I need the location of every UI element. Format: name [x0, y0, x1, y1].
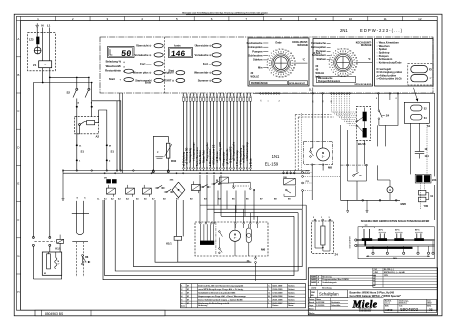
svg-text:09/02: 09/02 — [427, 303, 431, 305]
svg-text:4: 4 — [329, 60, 330, 63]
seven segment display 1 — [108, 47, 135, 59]
svg-text:6: 6 — [211, 17, 213, 21]
svg-text:Bearb.: Bearb. — [309, 302, 315, 304]
svg-text:Name: Name — [288, 305, 293, 307]
svg-text:Fort —: Fort — — [203, 62, 212, 66]
svg-text:☞: ☞ — [430, 77, 432, 80]
svg-text:Lfd-Nr: Lfd-Nr — [311, 288, 316, 290]
svg-text:BAM2: BAM2 — [311, 278, 316, 281]
M8 pin stub from panel — [312, 88, 314, 94]
svg-text:Stärken: Stärken — [316, 57, 326, 61]
Z4 resistor — [321, 221, 325, 251]
junction dots on bus — [62, 170, 222, 174]
svg-text:1: 1 — [333, 52, 334, 54]
svg-text:Bl.Nr.: Bl.Nr. — [427, 305, 432, 307]
svg-text:2: 2 — [72, 17, 74, 21]
svg-text:Z1: Z1 — [33, 63, 37, 67]
svg-text:Zust: Zust — [181, 305, 185, 308]
wire N output — [42, 68, 44, 83]
svg-text:Schmi.: Schmi. — [288, 289, 295, 291]
svg-text:50: 50 — [354, 70, 356, 72]
svg-text:60°C: 60°C — [395, 230, 400, 232]
svg-text:05: 05 — [429, 308, 433, 312]
pcb wiper terminals — [372, 241, 434, 255]
svg-text:19: 19 — [244, 93, 246, 95]
series description — [350, 290, 402, 298]
svg-text:Norm: Norm — [309, 308, 314, 310]
contact below 1N5 — [284, 186, 295, 197]
svg-text:50: 50 — [292, 70, 294, 72]
M6 bar feed wires — [201, 224, 214, 240]
motor M1 resistor — [47, 252, 51, 269]
svg-text:10: 10 — [344, 48, 346, 50]
relay A2 dashed box — [75, 117, 99, 134]
node L1 junction — [49, 77, 51, 79]
svg-text:1N1: 1N1 — [272, 154, 280, 159]
connector pair left wire — [32, 236, 34, 279]
wire PE drop — [36, 28, 38, 37]
svg-text:11: 11 — [384, 17, 387, 21]
svg-text:Z4: Z4 — [335, 253, 339, 257]
svg-text:Schmi.: Schmi. — [288, 296, 295, 298]
pcb top contact labels — [379, 229, 423, 234]
Z4 terminals — [313, 217, 331, 221]
svg-text:21: 21 — [250, 93, 252, 95]
protective earth terminal — [34, 44, 41, 54]
svg-text:30: 30 — [356, 64, 358, 66]
top coordinate ticks and numbers — [21, 16, 438, 21]
svg-text:M: M — [44, 273, 46, 275]
wire left vertical N down — [32, 83, 34, 238]
svg-text:⊙: ⊙ — [123, 66, 125, 69]
seven segment display 2 — [169, 45, 193, 59]
dial 1 bottom boxes — [250, 81, 308, 85]
svg-text:n Schleuderstop: n Schleuderstop — [246, 142, 249, 161]
relay 1N5 — [283, 177, 295, 185]
svg-text:EL-159: EL-159 — [265, 162, 279, 167]
svg-text:3: 3 — [107, 17, 109, 21]
switch unit S1 box — [404, 88, 430, 128]
svg-text:11: 11 — [340, 48, 342, 50]
svg-text:12: 12 — [418, 17, 422, 21]
svg-text:6: 6 — [329, 67, 330, 69]
svg-text:40: 40 — [355, 66, 357, 69]
pcb left terminals — [355, 239, 357, 247]
svg-text:M8: M8 — [328, 166, 332, 170]
svg-text:3N: 3N — [104, 177, 107, 179]
dial 2 left labels — [311, 41, 330, 61]
svg-text:1Z3: 1Z3 — [29, 37, 34, 41]
svg-text:12: 12 — [337, 49, 339, 51]
svg-text:70: 70 — [287, 74, 289, 76]
svg-text:2: 2 — [313, 217, 314, 219]
relay K1 coil mid — [166, 200, 251, 262]
svg-text:M: M — [109, 145, 111, 147]
svg-text:7: 7 — [331, 70, 332, 72]
svg-text:Werks.: Werks. — [309, 313, 315, 315]
svg-text:4.02.1998: 4.02.1998 — [316, 301, 324, 304]
svg-text:04.11.1999: 04.11.1999 — [272, 284, 283, 287]
revision table texts — [181, 284, 295, 307]
svg-text:2Y1: 2Y1 — [306, 170, 309, 172]
contact row small 1 — [155, 185, 165, 188]
svg-text:60 Soll...: 60 Soll... — [313, 53, 323, 55]
svg-text:70: 70 — [349, 74, 351, 76]
svg-text:S2: S2 — [67, 91, 71, 95]
svg-text:12: 12 — [220, 93, 222, 95]
svg-text:Pumpen/Schleudern: Pumpen/Schleudern — [318, 81, 341, 83]
svg-text:M.Nr.: M.Nr. — [385, 305, 389, 307]
option list table left — [308, 275, 437, 290]
node collect — [356, 120, 358, 127]
filter block Z1 — [33, 61, 52, 68]
svg-text:5: 5 — [267, 64, 268, 66]
optional wiring dashed verticals — [295, 115, 334, 172]
svg-text:Extraspülen: Extraspülen — [248, 45, 263, 49]
svg-text:2: 2 — [269, 55, 270, 57]
svg-text:BAM1: BAM1 — [311, 276, 316, 279]
NTC thermistor 2 — [363, 128, 367, 138]
svg-text:30: 30 — [275, 76, 277, 78]
svg-text:2: 2 — [396, 98, 397, 100]
svg-text:L1: L1 — [47, 24, 51, 28]
svg-text:Schmi.: Schmi. — [288, 285, 295, 287]
resistor R30 body — [165, 143, 177, 163]
svg-text:40: 40 — [293, 66, 295, 69]
svg-text:16: 16 — [292, 55, 294, 57]
display section divider — [164, 37, 166, 93]
interference cap 223 — [415, 174, 437, 183]
svg-text:Stärken: Stärken — [253, 58, 263, 62]
svg-text:Baureihe: W500 Nova S-Plus, Hy: Baureihe: W500 Nova S-Plus, Hy148 — [350, 290, 395, 294]
svg-text:|◷: |◷ — [429, 68, 432, 71]
svg-text:R30: R30 — [171, 159, 177, 163]
svg-text:6: 6 — [200, 94, 202, 95]
pcb top bracket 17deg — [363, 225, 375, 228]
svg-text:29.01.1998: 29.01.1998 — [272, 299, 283, 301]
relay K5 — [216, 177, 228, 183]
multi contact lever — [228, 182, 255, 191]
revision table rows — [181, 287, 306, 303]
display2 right labels and buttons — [194, 44, 221, 83]
svg-text:Feinwäsche: Feinwäsche — [311, 41, 326, 45]
svg-text:5904803: 5904803 — [400, 307, 418, 312]
wire S1 to 223 — [410, 123, 412, 174]
svg-text:2: 2 — [376, 98, 377, 100]
svg-text:9: 9 — [335, 51, 336, 53]
svg-text:N: N — [41, 24, 43, 28]
node N junction — [42, 82, 44, 84]
svg-text:13: 13 — [285, 50, 287, 52]
plug S1 left pins — [76, 144, 85, 162]
svg-text:20: 20 — [247, 93, 249, 95]
svg-text:Gepr.: Gepr. — [309, 305, 314, 307]
motor M1 box — [42, 252, 61, 275]
svg-text:S1: S1 — [427, 124, 431, 128]
svg-text:M: M — [234, 234, 236, 237]
connector column left — [302, 170, 312, 209]
svg-text:t1503: t1503 — [385, 308, 393, 312]
mechanical link dashed — [34, 240, 55, 242]
dashed wire S1 right to 223 — [426, 123, 428, 174]
svg-text:2N1: 2N1 — [340, 28, 348, 33]
svg-text:50: 50 — [121, 49, 132, 59]
svg-text:F: F — [17, 218, 19, 222]
wire bus right under panel — [253, 92, 435, 94]
svg-text:Restzeit/min: Restzeit/min — [105, 69, 121, 73]
wires from B1/15 area down — [341, 125, 365, 200]
dashed vertical bus — [300, 113, 302, 172]
svg-text:85°C: 85°C — [415, 230, 420, 232]
svg-text:95: 95 — [285, 76, 287, 78]
svg-text:3: 3 — [329, 217, 330, 219]
svg-text:2N1: 2N1 — [375, 272, 378, 274]
svg-text:M6: M6 — [261, 248, 265, 252]
bus left end drop — [62, 171, 64, 199]
svg-text:Duckstein: Duckstein — [331, 301, 340, 304]
svg-text:0: 0 — [273, 75, 274, 77]
contact row small 3 — [211, 181, 221, 184]
wire duct vertical 3 — [133, 200, 302, 267]
wire L1 output — [49, 68, 51, 78]
spare pins on bus — [260, 93, 281, 102]
dial 1 tick ring — [267, 49, 296, 78]
M6 choke black bar — [200, 241, 214, 245]
svg-text:B: B — [17, 73, 19, 77]
svg-text:Beladung %: Beladung % — [106, 60, 122, 64]
connector 2A — [247, 256, 257, 281]
heater relay 114 — [415, 123, 429, 158]
svg-text:Wasser plus ⊙: Wasser plus ⊙ — [133, 71, 152, 75]
svg-text:Schaltplan: Schaltplan — [319, 292, 339, 297]
svg-text:16: 16 — [354, 55, 356, 57]
svg-text:2x: 2x — [260, 100, 262, 102]
M6 terminals — [200, 222, 259, 228]
svg-text:Vorwäsche ⊙: Vorwäsche ⊙ — [195, 53, 213, 57]
NTC thermistor 1 — [363, 112, 367, 122]
display2 left labels — [163, 69, 184, 82]
display1 buttons column inner — [124, 69, 134, 73]
bottom reference number box — [35, 310, 165, 316]
svg-text:18: 18 — [355, 58, 357, 60]
svg-text:Start: Start — [109, 77, 115, 81]
wires right side verticals — [378, 93, 435, 220]
svg-text:9: 9 — [273, 51, 274, 53]
wire S2 route right inner — [116, 101, 118, 171]
svg-text:223: 223 — [432, 178, 437, 182]
svg-text:S1: S1 — [81, 149, 85, 153]
svg-text:neue WPS-Einspül.sequ. Progr.-: neue WPS-Einspül.sequ. Progr.-Abl. + Zt.… — [198, 288, 243, 291]
svg-text:8: 8 — [333, 72, 334, 74]
net label PE N L1 — [35, 23, 39, 27]
M6 tacho winding — [229, 224, 240, 256]
valve Y80 — [419, 190, 434, 208]
pcb rail 1 — [357, 239, 435, 240]
connector pair right wire — [49, 236, 51, 252]
svg-text:S4: S4 — [386, 114, 390, 118]
svg-text:EL-159-(...): EL-159-(...) — [384, 269, 394, 271]
wire S1 left down — [76, 161, 78, 170]
svg-text:12: 12 — [275, 50, 277, 52]
svg-text:10: 10 — [282, 49, 284, 51]
svg-text:ers. d.: ers. d. — [385, 303, 391, 305]
svg-text:14: 14 — [227, 93, 229, 95]
svg-text:Vorwäsche ⊙: Vorwäsche ⊙ — [135, 53, 153, 57]
svg-text:Schmi.: Schmi. — [288, 292, 295, 294]
svg-text:M26: M26 — [401, 202, 407, 206]
svg-text:4: 4 — [267, 60, 268, 63]
wire to S1 plug left — [76, 106, 78, 144]
svg-text:40: 40 — [278, 76, 280, 79]
cross link wires upper — [200, 175, 306, 222]
svg-text:~: ~ — [44, 63, 46, 67]
switch S2 contact 2 — [85, 77, 90, 97]
svg-text:°C: °C — [302, 59, 305, 62]
svg-text:K1/1: K1/1 — [166, 242, 172, 246]
R30 symbols — [156, 151, 164, 158]
svg-text:Gen.2000 Galaxie WPS1/ +"W500: Gen.2000 Galaxie WPS1/ +"W500 Special" — [350, 294, 402, 298]
wire duct vertical 4 — [155, 200, 251, 262]
svg-text:EDPW-223-(...): EDPW-223-(...) — [360, 28, 403, 33]
wire drops to M6 group2 — [218, 191, 254, 220]
wire to relay A2 — [91, 106, 93, 116]
svg-text:17: 17 — [237, 93, 239, 95]
svg-text:16: 16 — [233, 93, 235, 95]
bus wire upper — [63, 170, 310, 172]
svg-text:11: 11 — [217, 93, 219, 95]
svg-text:60: 60 — [290, 73, 292, 75]
svg-text:Min: Min — [258, 65, 263, 69]
NTC sensor B1/15 dashed box — [356, 106, 370, 140]
wire L1 drop — [48, 28, 50, 61]
terminal labels row — [97, 198, 291, 201]
svg-text:13: 13 — [223, 93, 225, 95]
svg-text:8: 8 — [280, 17, 282, 21]
connector row bottom of ribbon — [183, 167, 252, 171]
connector pair below S2 — [76, 83, 93, 108]
svg-text:Name: Name — [316, 299, 321, 301]
svg-text:30: 30 — [294, 64, 296, 66]
svg-text:40°C: 40°C — [379, 229, 384, 232]
svg-text:WÄSCHE: WÄSCHE — [361, 44, 372, 47]
svg-text:p Ende: p Ende — [249, 158, 252, 167]
B1/15 terminals — [358, 108, 365, 132]
pcb contact stems and bars — [362, 229, 424, 246]
title block frame — [308, 268, 437, 315]
svg-text:10: 10 — [213, 93, 215, 95]
svg-text:Anpassungen an Progr.-Abl. + D: Anpassungen an Progr.-Abl. + Darst. Wass… — [198, 295, 246, 298]
panel status list texts — [376, 42, 403, 81]
node R30 terminals — [152, 171, 154, 173]
connector pins M8 feed — [312, 93, 324, 148]
wire S1 right down — [106, 161, 108, 170]
wire M1 bottom loop — [33, 275, 61, 279]
svg-text:CPU: CPU — [384, 275, 389, 277]
svg-text:°C: °C — [368, 58, 371, 61]
svg-text:Schaltbild im Bereich 2.3 geän: Schaltbild im Bereich 2.3 geändert/1N5 — [198, 291, 236, 294]
wire N drop — [42, 28, 44, 61]
svg-text:Datum: Datum — [309, 298, 315, 301]
wire A2 out right — [95, 110, 107, 144]
svg-text:SCHLEIFER: SCHLEIFER — [350, 236, 352, 249]
relay K3 — [142, 185, 151, 197]
svg-text:Mikrowäsche: Mikrowäsche — [318, 78, 333, 80]
revision table frame — [181, 284, 306, 308]
drive motor M6 dashed box — [195, 222, 268, 256]
wire outermost bottom — [103, 200, 306, 280]
svg-text:11: 11 — [278, 49, 280, 51]
svg-text:○ Knitterschutz/Ende: ○ Knitterschutz/Ende — [377, 61, 403, 64]
svg-text:23.06.1999: 23.06.1999 — [272, 289, 283, 291]
switch S2 contact 1 — [67, 77, 78, 97]
connector symbols below EL-159 — [283, 171, 296, 174]
ribbon wire labels — [182, 141, 252, 166]
revision table columns — [186, 284, 287, 308]
wires M8 to bus — [312, 165, 341, 200]
svg-text:Bemerkung: Bemerkung — [322, 288, 331, 290]
svg-text:möglich?: möglich? — [163, 72, 174, 75]
svg-text:Fort ——: Fort —— — [140, 62, 152, 66]
svg-text:⊙: ⊙ — [123, 61, 125, 64]
svg-text:WÄSCHE: WÄSCHE — [297, 44, 308, 47]
svg-text:E: E — [17, 182, 19, 186]
svg-text:FEINWÄSCHE: FEINWÄSCHE — [251, 82, 268, 85]
svg-text:17.03.1999: 17.03.1999 — [272, 292, 283, 294]
schaltplan cell — [310, 290, 347, 298]
motor M1 winding — [44, 252, 61, 275]
program selector dial 1 knob — [272, 54, 291, 73]
resistor R30 loop — [153, 136, 168, 170]
svg-text:S1: S1 — [111, 149, 115, 153]
dial 2 tick ring — [329, 48, 358, 77]
svg-text:2Y2: 2Y2 — [306, 181, 309, 183]
svg-text:EDPW-223-(...) + Hy148: EDPW-223-(...) + Hy148 — [384, 271, 405, 274]
svg-text:(1503-Nr.): (1503-Nr.) — [399, 303, 407, 305]
svg-text:1E: 1E — [425, 149, 428, 151]
suppressor Z4 box — [312, 221, 334, 254]
svg-text:A: A — [389, 188, 391, 192]
svg-text:Schmidtke: Schmidtke — [331, 304, 340, 307]
bridge rectifier — [170, 180, 185, 198]
svg-text:5: 5 — [176, 17, 178, 21]
relay K2 — [126, 185, 135, 197]
svg-text:240°: 240° — [393, 257, 397, 260]
wire duct vertical 1 — [105, 200, 294, 276]
program selector dial 2 box — [313, 39, 373, 87]
dashed drops from connector row — [331, 94, 356, 125]
dial 1 right line — [294, 62, 308, 64]
approval rows — [308, 298, 383, 315]
svg-text:1: 1 — [37, 17, 39, 21]
ribbon wires band — [184, 101, 251, 167]
svg-text:Wasser/abr ⊙: Wasser/abr ⊙ — [194, 71, 212, 75]
svg-text:A1: A1 — [330, 100, 333, 102]
M8 bottom terminals — [311, 164, 324, 166]
svg-text:4: 4 — [141, 17, 143, 21]
wire S2 route right — [92, 101, 121, 171]
svg-text:8: 8 — [207, 94, 209, 95]
svg-text:5: 5 — [197, 94, 199, 95]
contact row small 1b — [164, 189, 174, 192]
svg-text:Summer ⊙: Summer ⊙ — [198, 79, 213, 83]
svg-text:60: 60 — [352, 72, 354, 74]
dial 2 bottom box — [317, 76, 373, 85]
capillary dashed lines — [76, 242, 83, 277]
program selector dial 1 box — [248, 38, 309, 86]
wire bus N horizontal — [33, 82, 91, 84]
svg-text:CAD: CAD — [311, 291, 316, 294]
control panel 2N1 outline — [100, 37, 433, 93]
